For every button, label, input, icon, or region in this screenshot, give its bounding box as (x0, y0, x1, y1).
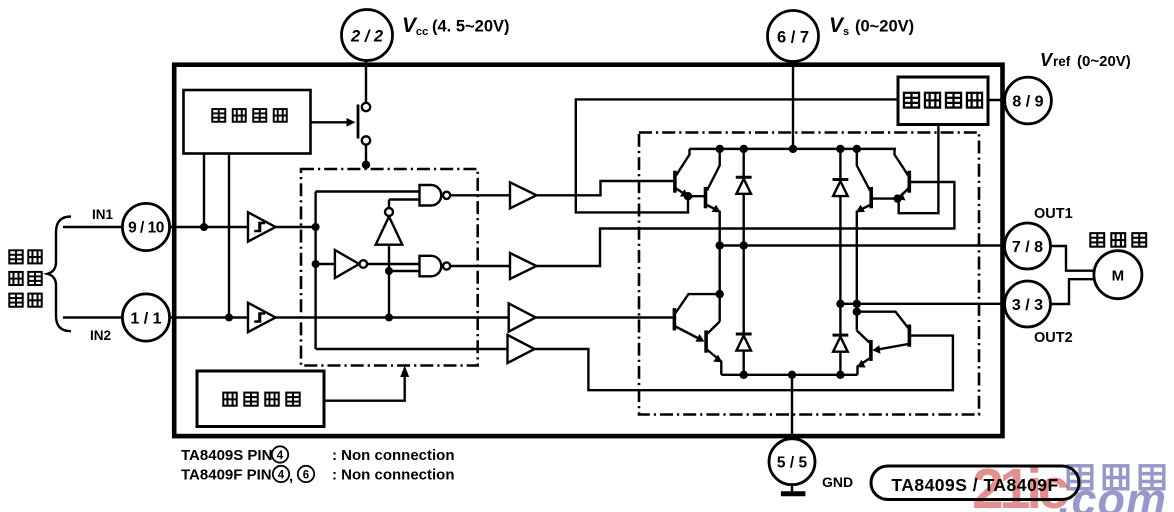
wire Vcc pin to switch (365, 56, 367, 103)
wire IN2 line (63, 316, 509, 318)
svg-text:(0~20V): (0~20V) (1077, 53, 1131, 70)
pin 7/8 (OUT1) (1005, 223, 1051, 269)
svg-text:TA8409S PIN: TA8409S PIN (181, 447, 272, 464)
svg-text:.com: .com (1058, 474, 1167, 512)
wire Vs pin to bridge rail (792, 58, 794, 149)
wire Vref box to pin 8/9 (988, 99, 1006, 101)
driver A3 (509, 303, 536, 331)
pin 1/1 (IN2) (122, 294, 169, 341)
label Vref (0~20V) (1040, 50, 1131, 70)
transistor Q8 (lower-right darlington output) (857, 304, 871, 375)
label OUT2 (1034, 330, 1073, 346)
svg-text:(0~20V): (0~20V) (855, 18, 914, 36)
watermark .com (1058, 474, 1167, 512)
diode D1 (Vs to OUT1) (736, 149, 752, 246)
diode D3 (GND to OUT1) (736, 246, 752, 375)
junction dot IN1/node A (312, 223, 320, 231)
reference voltage block 基准电压 (898, 77, 988, 125)
junction dot G2 input branch (385, 267, 393, 275)
svg-text:21ic: 21ic (972, 457, 1069, 512)
junction dots on OUT1 line (716, 241, 748, 249)
wire driver A1 to Q1 base (537, 181, 674, 195)
svg-text:7 / 8: 7 / 8 (1012, 239, 1043, 256)
wire GND bus to pin 5/5 (791, 375, 793, 439)
inverter U4 (IN2 bar, pointing up) (376, 200, 420, 245)
thermal protection block 过热保护 (197, 371, 324, 427)
svg-text:6: 6 (303, 470, 309, 482)
pin 3/3 (OUT2) (1005, 281, 1051, 327)
inverter U3 (IN1 bar) (316, 250, 420, 278)
NAND gate G2 (420, 256, 451, 276)
diode D2 (Vs to OUT2) (833, 149, 849, 304)
junction dot Q7 collector / OUT2 (853, 308, 861, 316)
wire OUT1 down to Q5/Q6 collectors (719, 246, 721, 322)
wire OUT2 pin to motor (1051, 279, 1094, 304)
input buffer B2 (Schmitt) for IN2 (248, 303, 276, 332)
diode D4 (GND to OUT2) (833, 304, 849, 375)
junction dot Q4 emitter / Q3 base / Vref (893, 194, 901, 202)
switch upper contact (362, 103, 370, 111)
Vs supply rail (690, 148, 897, 151)
driver A4 (508, 335, 535, 363)
vertical label 控制信号输入 (9, 250, 41, 306)
driver A1 (510, 182, 537, 208)
wire driver A4 to Q7 base (535, 336, 953, 391)
svg-text:4: 4 (278, 470, 285, 482)
wire switch to logic box (365, 145, 367, 169)
transistor Q6 (lower-left darlington output) (706, 322, 722, 375)
wire G2 output to driver A2 (450, 265, 510, 267)
pin 5/5 (GND) (769, 439, 815, 485)
part number oval TA8409S / TA8409F (871, 466, 1079, 500)
svg-text:OUT2: OUT2 (1034, 330, 1073, 346)
svg-text:9 / 10: 9 / 10 (128, 220, 164, 237)
svg-text:M: M (1112, 268, 1125, 285)
label GND (822, 474, 853, 490)
pin 6/7 (Vs) (768, 11, 819, 62)
wire node A to driver A4 (316, 348, 508, 350)
ground symbol (781, 485, 806, 494)
wire IN1 line (63, 226, 316, 228)
transistor Q3 (upper-right darlington output) (856, 149, 898, 304)
wire standby to IN1 (203, 154, 205, 228)
OUT2 node line (840, 303, 1005, 305)
IC outer boundary box (174, 65, 1002, 436)
label Vcc (4.5~20V) (402, 14, 510, 38)
svg-text:IN1: IN1 (92, 207, 114, 222)
pin 8/9 (Vref) (1005, 77, 1052, 124)
logic inner left vertical (node A from IN1) (316, 192, 420, 350)
junction dot standby/IN1 (200, 223, 208, 231)
wire thermal protection to logic box (arrow) (324, 366, 409, 401)
H-bridge power stage dashed box (639, 133, 979, 415)
svg-text:6 / 7: 6 / 7 (777, 29, 809, 47)
svg-text:(4. 5~20V): (4. 5~20V) (432, 18, 510, 36)
svg-text:4: 4 (277, 450, 284, 462)
svg-text:ref: ref (1053, 54, 1071, 69)
svg-text:3 / 3: 3 / 3 (1012, 297, 1043, 314)
transistor Q5 (lower-left darlington input) (674, 294, 719, 342)
label IN2 (90, 328, 111, 343)
label IN1 (92, 207, 114, 222)
svg-text:1 / 1: 1 / 1 (130, 311, 161, 328)
input buffer B1 (Schmitt) for IN1 (248, 212, 276, 241)
note line 2: TA8409F PIN4,6 non connection (181, 466, 455, 485)
logic block dashed box (301, 169, 478, 366)
watermark 21ic (972, 457, 1069, 512)
note line 1: TA8409S PIN4 non connection (181, 446, 455, 464)
wire Vref box bottom branch to Q3/Q4 node (899, 125, 939, 214)
transistor Q1 (upper-left darlington input) (675, 149, 690, 197)
svg-text:8 / 9: 8 / 9 (1012, 94, 1043, 111)
label Vs (0~20V) (829, 14, 914, 38)
junction dot node A to inverter U3 (312, 260, 320, 268)
junction dot IN2/U4 (385, 314, 393, 322)
watermark 电子网 (1068, 466, 1164, 489)
junction dot Q5 collector / OUT1 (716, 290, 724, 298)
wire standby to IN2 (228, 154, 230, 318)
wire OUT1 pin to motor (1051, 246, 1094, 271)
wire driver A3 to Q5 base (536, 316, 673, 318)
svg-text:5 / 5: 5 / 5 (777, 455, 808, 472)
standby circuit block 待机电路 (184, 90, 311, 154)
svg-text:TA8409F PIN: TA8409F PIN (181, 467, 272, 484)
wire Vref box left branch to Q1/Q2 node (576, 99, 898, 212)
wire G1 output to driver A1 (450, 194, 510, 196)
wire IN2 to U4 and G2 (389, 245, 420, 318)
svg-text:OUT1: OUT1 (1034, 206, 1073, 222)
transistor Q7 (lower-right darlington input) (858, 312, 909, 354)
junction dots on Vs rail (716, 145, 862, 153)
svg-text:IN2: IN2 (90, 328, 111, 343)
switch control wire from standby circuit (311, 118, 356, 127)
GND emitter bus (721, 374, 857, 376)
svg-text:: Non connection: : Non connection (332, 447, 455, 464)
junction dots on OUT2 line (836, 300, 861, 308)
junction dots on GND bus (740, 371, 845, 379)
svg-text:,: , (289, 468, 293, 485)
label OUT1 (1034, 206, 1073, 222)
junction dot Q1 emitter / Q2 base / Vref (684, 192, 692, 200)
wire driver A2 to Q4 base (537, 182, 955, 266)
svg-text:2 / 2: 2 / 2 (350, 28, 383, 46)
switch lever bar (357, 105, 360, 139)
pin 2/2 (Vcc) (342, 10, 393, 61)
junction dot at logic box top (362, 161, 370, 169)
svg-text:GND: GND (822, 474, 853, 490)
motor label 电动机 (1090, 233, 1146, 247)
motor M circle (1094, 251, 1142, 299)
curly brace grouping control inputs (48, 217, 72, 332)
NAND gate G1 (420, 185, 451, 206)
svg-text:: Non connection: : Non connection (332, 467, 455, 484)
svg-text:V: V (1040, 50, 1054, 70)
svg-text:cc: cc (416, 26, 428, 38)
driver A2 (510, 253, 537, 279)
transistor Q4 (upper-right darlington input) (895, 149, 910, 201)
transistor Q2 (upper-left darlington output) (688, 149, 721, 246)
pin 9/10 (IN1) (122, 203, 169, 250)
OUT1 node line (716, 244, 1006, 246)
svg-text:s: s (843, 26, 849, 38)
junction dot standby/IN2 (225, 314, 233, 322)
switch lower contact (362, 136, 370, 144)
